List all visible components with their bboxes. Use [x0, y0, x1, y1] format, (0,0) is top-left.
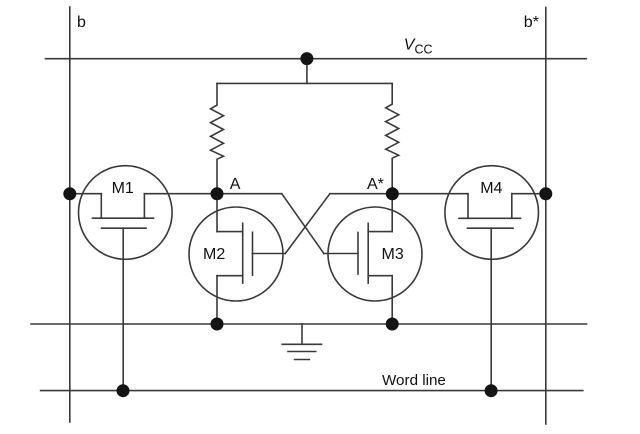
svg-text:M2: M2: [203, 246, 225, 263]
svg-text:M4: M4: [480, 180, 502, 197]
svg-text:b*: b*: [524, 14, 539, 31]
svg-text:Word line: Word line: [382, 372, 446, 389]
svg-text:A*: A*: [367, 176, 384, 193]
svg-text:M1: M1: [112, 180, 134, 197]
svg-text:A: A: [230, 176, 241, 193]
svg-text:CC: CC: [415, 42, 433, 56]
svg-text:b: b: [77, 14, 86, 31]
svg-text:M3: M3: [382, 246, 404, 263]
